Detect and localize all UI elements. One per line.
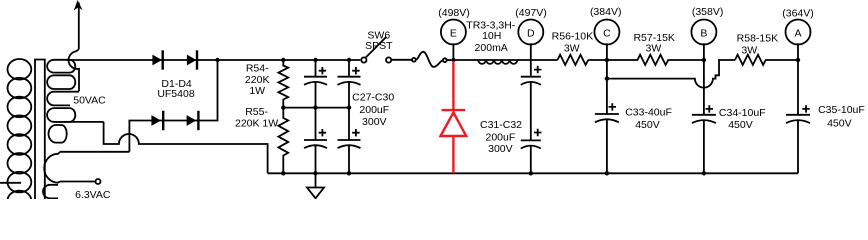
diode D2 bbox=[187, 55, 197, 66]
svg-text:220K 1W: 220K 1W bbox=[235, 118, 278, 130]
svg-text:200uF: 200uF bbox=[359, 104, 389, 116]
svg-text:C34-10uF: C34-10uF bbox=[719, 107, 766, 119]
svg-text:3W: 3W bbox=[564, 42, 580, 54]
svg-text:200mA: 200mA bbox=[475, 42, 508, 54]
wire switch to jumper bbox=[392, 59, 413, 61]
bottom rail bbox=[268, 172, 798, 174]
resistor R56 bbox=[558, 55, 589, 65]
junction R55 bottom bbox=[281, 171, 285, 175]
capacitor C29 bbox=[338, 60, 361, 108]
node B bbox=[691, 20, 716, 45]
junction R54 top bbox=[281, 58, 285, 62]
junction node A bbox=[796, 58, 800, 62]
svg-text:200uF: 200uF bbox=[486, 131, 516, 143]
node E bbox=[441, 20, 466, 45]
node C bbox=[594, 20, 619, 45]
capacitor C31 bbox=[521, 77, 541, 141]
transformer T1 secondary winding loops bbox=[43, 60, 104, 199]
resistor R55 bbox=[278, 108, 288, 174]
svg-text:UF5408: UF5408 bbox=[157, 88, 195, 100]
capacitor C34 bbox=[692, 115, 716, 174]
svg-text:6.3VAC: 6.3VAC bbox=[75, 189, 111, 199]
wire 6.3VAC bottom lead bbox=[60, 181, 96, 183]
svg-text:C31-C32: C31-C32 bbox=[480, 119, 522, 131]
svg-text:C27-C30: C27-C30 bbox=[352, 92, 394, 104]
diode (red) crowbar bbox=[441, 61, 467, 173]
svg-text:220K: 220K bbox=[245, 74, 270, 86]
wire bypass C to R58 with hop under B bbox=[607, 60, 735, 88]
transformer T1 primary winding bbox=[8, 59, 32, 211]
svg-text:(498V): (498V) bbox=[438, 7, 470, 19]
capacitor C27 bbox=[304, 60, 327, 108]
node A bbox=[786, 20, 811, 45]
resistor R54 bbox=[278, 60, 288, 108]
wire R56 to C bbox=[588, 59, 607, 61]
ground bbox=[307, 173, 324, 198]
capacitor C35 bbox=[786, 115, 810, 174]
svg-text:50VAC: 50VAC bbox=[73, 95, 106, 107]
junction caps mid bbox=[313, 105, 317, 109]
junction diode output bbox=[215, 58, 219, 62]
wire top rail from transformer to switch bbox=[66, 59, 360, 61]
junction node C bbox=[605, 58, 609, 62]
wire primary bottom lead bbox=[0, 182, 21, 184]
wire D stub to C31 bbox=[530, 43, 532, 76]
svg-text:B: B bbox=[700, 28, 707, 40]
terminal circle 6.3VAC bbox=[96, 179, 101, 184]
svg-text:R54-: R54- bbox=[246, 63, 269, 75]
junction R54/R55 mid bbox=[281, 105, 285, 109]
svg-text:3W: 3W bbox=[741, 44, 757, 56]
resistor R58 bbox=[735, 55, 798, 65]
capacitor C32 bbox=[521, 140, 541, 173]
svg-text:D: D bbox=[527, 28, 535, 40]
diode D1 bbox=[152, 55, 162, 66]
junction C34 bottom bbox=[702, 171, 706, 175]
svg-text:(358V): (358V) bbox=[692, 6, 724, 18]
svg-text:10H: 10H bbox=[482, 30, 501, 42]
wire B stub to C34 bbox=[703, 43, 705, 115]
svg-text:C35-10uF: C35-10uF bbox=[818, 104, 865, 116]
wire 6.3VAC tap vertical to lower diodes bbox=[129, 60, 217, 152]
svg-text:(497V): (497V) bbox=[515, 7, 547, 19]
wire A stub to C35 bbox=[797, 43, 799, 115]
inductor TR3 bbox=[478, 60, 517, 64]
junction C33 bottom bbox=[605, 171, 609, 175]
wire rail E to D bbox=[453, 59, 530, 61]
svg-text:300V: 300V bbox=[362, 116, 387, 128]
svg-text:3W: 3W bbox=[646, 43, 662, 55]
svg-text:R56-10K: R56-10K bbox=[552, 30, 593, 42]
jumper wire with end circles bbox=[412, 58, 416, 62]
svg-text:R55-: R55- bbox=[245, 106, 268, 118]
svg-text:1W: 1W bbox=[249, 85, 265, 97]
junction caps top bbox=[313, 58, 317, 62]
capacitor C28 bbox=[304, 108, 327, 174]
svg-text:450V: 450V bbox=[635, 119, 660, 131]
svg-text:450V: 450V bbox=[827, 117, 852, 129]
wire secondary top lead to arrow bbox=[69, 3, 79, 92]
transformer core bbox=[35, 60, 45, 201]
junction node B bbox=[702, 58, 706, 62]
wire 50VAC bottom tap with hop bbox=[104, 122, 268, 173]
svg-text:300V: 300V bbox=[488, 143, 513, 155]
wire E stub bbox=[452, 43, 454, 60]
junction node E bbox=[451, 58, 455, 62]
svg-text:A: A bbox=[794, 28, 801, 40]
wire 6.3VAC top tap bbox=[60, 151, 129, 153]
wire rail D to R56 bbox=[531, 59, 558, 61]
svg-text:(364V): (364V) bbox=[782, 7, 814, 19]
svg-text:E: E bbox=[450, 28, 457, 40]
capacitor C33 bbox=[595, 114, 619, 173]
capacitor C30 bbox=[338, 108, 361, 174]
svg-text:C: C bbox=[603, 28, 611, 40]
svg-text:(384V): (384V) bbox=[590, 6, 622, 18]
resistor R57 bbox=[607, 55, 704, 65]
diode D4 bbox=[187, 115, 197, 126]
svg-text:SPST: SPST bbox=[365, 40, 393, 52]
switch SW6 SPST bbox=[361, 57, 366, 62]
node D bbox=[518, 20, 543, 45]
svg-text:C33-40uF: C33-40uF bbox=[625, 107, 672, 119]
svg-text:R58-15K: R58-15K bbox=[737, 33, 778, 45]
junction C32 bottom bbox=[529, 171, 533, 175]
junction caps bottom bbox=[313, 171, 317, 175]
svg-text:450V: 450V bbox=[728, 119, 753, 131]
diode D3 bbox=[151, 115, 161, 126]
wire mid rail bbox=[283, 107, 349, 109]
junction C bypass tap bbox=[605, 76, 609, 80]
arrow top terminal bbox=[74, 0, 83, 11]
wire C stub to C33 bbox=[606, 43, 608, 114]
